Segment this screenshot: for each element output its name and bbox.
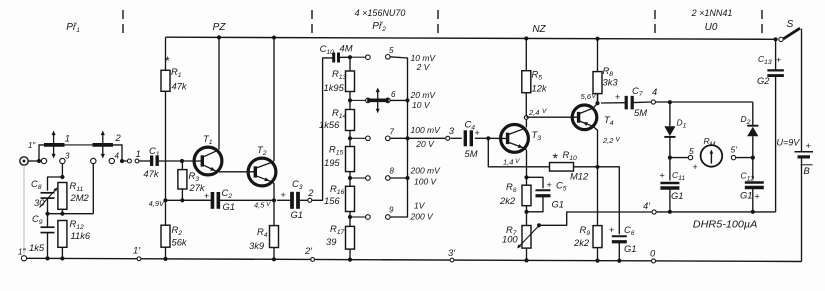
svg-text:47k: 47k xyxy=(143,168,159,179)
svg-text:G1: G1 xyxy=(552,199,565,210)
svg-text:5,6: 5,6 xyxy=(581,92,592,101)
svg-text:G1: G1 xyxy=(740,190,753,201)
svg-text:+: + xyxy=(281,190,286,200)
svg-text:+: + xyxy=(776,55,781,65)
svg-text:G1: G1 xyxy=(291,209,304,220)
svg-text:200 mV: 200 mV xyxy=(410,166,442,176)
svg-text:M12: M12 xyxy=(570,171,589,182)
svg-text:5M: 5M xyxy=(465,148,478,159)
svg-text:+: + xyxy=(609,225,614,235)
svg-text:+: + xyxy=(660,171,665,181)
svg-text:3k9: 3k9 xyxy=(249,240,265,251)
svg-text:2,4: 2,4 xyxy=(528,108,539,117)
svg-text:3: 3 xyxy=(65,152,70,161)
svg-text:100 mV: 100 mV xyxy=(411,125,442,135)
svg-text:5: 5 xyxy=(689,146,694,156)
svg-text:4′: 4′ xyxy=(643,200,651,211)
svg-text:2: 2 xyxy=(307,187,314,198)
svg-text:G1: G1 xyxy=(223,201,236,212)
svg-text:100 V: 100 V xyxy=(414,177,438,187)
svg-text:DHR5-100µA: DHR5-100µA xyxy=(693,220,758,231)
svg-text:G1: G1 xyxy=(671,190,684,201)
svg-text:B: B xyxy=(804,165,810,176)
svg-text:2M2: 2M2 xyxy=(70,192,90,203)
svg-text:S: S xyxy=(787,19,794,30)
svg-text:5M: 5M xyxy=(634,107,647,118)
svg-text:30: 30 xyxy=(34,197,45,208)
svg-text:2k2: 2k2 xyxy=(573,237,590,248)
svg-text:200 V: 200 V xyxy=(410,212,435,222)
svg-text:1′: 1′ xyxy=(133,245,141,256)
svg-text:4 ×156NU70: 4 ×156NU70 xyxy=(355,8,406,18)
svg-text:4,5: 4,5 xyxy=(254,201,265,210)
svg-text:4M: 4M xyxy=(340,43,353,54)
svg-text:4,9V: 4,9V xyxy=(149,199,165,208)
svg-text:V: V xyxy=(542,108,547,115)
svg-text:20 mV: 20 mV xyxy=(410,90,437,100)
svg-text:+: + xyxy=(547,180,552,190)
svg-text:+: + xyxy=(204,191,209,201)
svg-text:1,4: 1,4 xyxy=(503,158,513,167)
svg-text:39: 39 xyxy=(326,236,337,247)
svg-text:156: 156 xyxy=(324,195,340,206)
svg-text:1k56: 1k56 xyxy=(319,119,340,130)
svg-text:+: + xyxy=(615,92,620,102)
svg-text:4: 4 xyxy=(652,86,657,97)
svg-text:11k6: 11k6 xyxy=(71,230,91,241)
svg-text:56k: 56k xyxy=(172,237,188,248)
svg-text:5: 5 xyxy=(389,46,394,55)
svg-text:U=9V: U=9V xyxy=(777,138,801,148)
svg-text:U0: U0 xyxy=(705,22,718,33)
svg-text:*: * xyxy=(165,54,170,68)
svg-text:8: 8 xyxy=(390,167,395,176)
svg-text:V: V xyxy=(266,201,271,208)
svg-text:5′: 5′ xyxy=(731,145,738,155)
svg-text:2′: 2′ xyxy=(304,245,313,256)
svg-text:7: 7 xyxy=(390,128,395,137)
svg-text:V: V xyxy=(616,137,621,144)
svg-text:PZ: PZ xyxy=(213,22,227,33)
svg-text:1k95: 1k95 xyxy=(324,82,345,93)
svg-text:9: 9 xyxy=(389,206,394,215)
svg-text:1: 1 xyxy=(136,148,141,159)
svg-text:195: 195 xyxy=(324,157,340,168)
svg-text:1k5: 1k5 xyxy=(29,242,45,253)
svg-text:1‴: 1‴ xyxy=(18,248,26,257)
svg-text:+: + xyxy=(475,128,480,138)
svg-text:G2: G2 xyxy=(757,75,770,86)
svg-text:+: + xyxy=(693,162,698,172)
svg-text:1: 1 xyxy=(65,133,70,144)
svg-text:+: + xyxy=(755,192,760,202)
svg-text:2 ×1NN41: 2 ×1NN41 xyxy=(691,8,733,18)
svg-text:*: * xyxy=(553,150,559,166)
svg-text:47k: 47k xyxy=(172,81,188,92)
svg-text:20 V: 20 V xyxy=(415,139,435,149)
svg-text:4: 4 xyxy=(115,152,120,161)
svg-text:100: 100 xyxy=(502,234,518,245)
svg-text:NZ: NZ xyxy=(532,24,546,35)
svg-text:2,2: 2,2 xyxy=(602,136,614,145)
svg-text:+: + xyxy=(806,140,812,151)
svg-text:10 V: 10 V xyxy=(412,100,431,110)
svg-text:2 V: 2 V xyxy=(416,62,431,72)
svg-text:6: 6 xyxy=(391,90,396,99)
svg-text:3k3: 3k3 xyxy=(603,77,619,88)
svg-text:2: 2 xyxy=(115,132,122,143)
svg-text:12k: 12k xyxy=(532,83,548,94)
svg-text:3: 3 xyxy=(449,125,455,136)
svg-text:V: V xyxy=(515,158,520,165)
svg-text:3′: 3′ xyxy=(448,247,456,258)
svg-text:1V: 1V xyxy=(414,201,426,211)
svg-text:2k2: 2k2 xyxy=(499,195,516,206)
svg-text:0: 0 xyxy=(650,248,656,259)
svg-text:G1: G1 xyxy=(624,243,637,254)
svg-text:1″: 1″ xyxy=(28,141,36,150)
